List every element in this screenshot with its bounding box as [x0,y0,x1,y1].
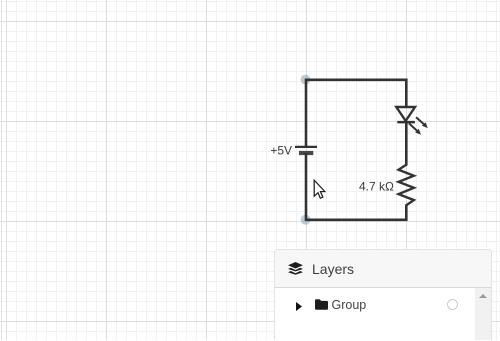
scrollbar up arrow [479,294,487,298]
node A (top-left junction dot) [301,75,311,85]
label +5V (battery value) [270,144,292,158]
scrollbar [475,288,491,340]
wire bottom (net from battery - to resistor) [305,219,408,222]
layers panel [274,249,492,340]
wire left lower (battery - lead) [305,153,308,221]
battery V1 +5V [295,147,317,153]
expand arrow [296,302,302,311]
wire top (net from battery + to LED anode) [305,79,408,82]
svg-text:4.7 kΩ: 4.7 kΩ [359,179,394,193]
layers icon [288,262,303,276]
layers panel header [275,250,491,288]
wire left upper (battery + lead) [305,79,308,147]
layer row [275,288,475,341]
svg-text:+5V: +5V [270,144,292,158]
folder icon [315,299,328,310]
mouse cursor [314,180,325,198]
resistor R1 [399,165,414,206]
wire right upper (LED anode lead) [405,79,408,108]
node B (bottom-left junction dot) [301,215,311,225]
canvas left edge line [1,0,2,340]
visibility circle [447,299,458,310]
LED D1 [396,107,428,135]
wire resistor to bottom [405,205,408,222]
wire LED cathode to resistor [405,121,408,166]
layer name Group [332,298,367,312]
layers panel title [312,261,354,277]
label 4.7 kOhm (resistor value) [359,179,394,193]
